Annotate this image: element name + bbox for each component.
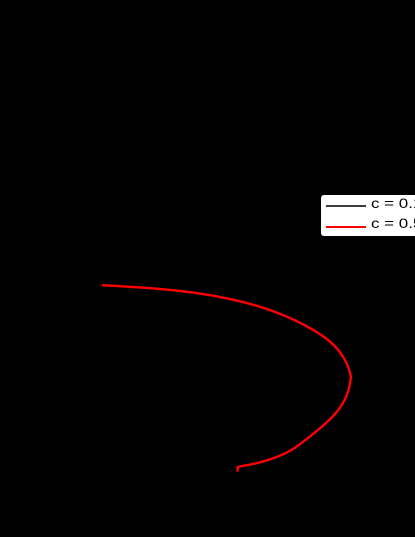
- legend swatch line c = 0.5 (red): [326, 226, 366, 228]
- legend label c = 0.1: [371, 196, 415, 210]
- legend swatch line c = 0.1 (dark): [326, 205, 366, 207]
- legend label c = 0.5: [371, 216, 415, 230]
- legend box: [321, 195, 415, 236]
